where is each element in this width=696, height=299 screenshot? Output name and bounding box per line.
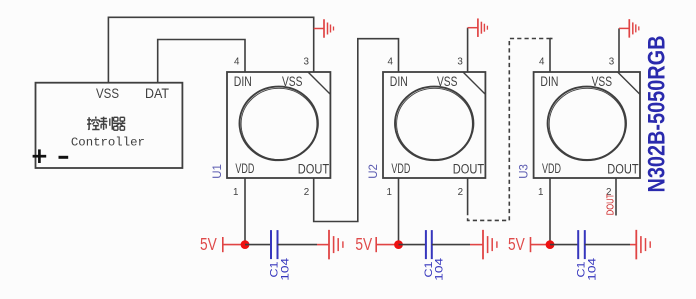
svg-text:2: 2 — [458, 187, 463, 198]
svg-text:5V: 5V — [200, 234, 217, 254]
svg-text:3: 3 — [303, 57, 309, 68]
svg-text:U3: U3 — [518, 164, 530, 179]
svg-text:VSS: VSS — [282, 74, 302, 89]
svg-text:2: 2 — [304, 187, 309, 198]
svg-text:Controller: Controller — [71, 135, 145, 149]
svg-text:4: 4 — [539, 57, 545, 68]
svg-text:4: 4 — [234, 57, 240, 68]
svg-text:DOUT: DOUT — [453, 161, 484, 176]
svg-text:5V: 5V — [508, 234, 525, 254]
svg-text:104: 104 — [587, 258, 599, 281]
svg-text:5V: 5V — [355, 234, 372, 254]
svg-text:DOUT: DOUT — [605, 193, 616, 215]
svg-text:1: 1 — [233, 187, 238, 198]
svg-text:VDD: VDD — [391, 161, 410, 176]
svg-text:DIN: DIN — [390, 74, 408, 89]
svg-text:VSS: VSS — [437, 74, 457, 89]
svg-text:DIN: DIN — [540, 74, 558, 89]
svg-text:4: 4 — [388, 57, 394, 68]
svg-text:DOUT: DOUT — [607, 161, 638, 176]
svg-text:VSS: VSS — [592, 74, 612, 89]
svg-text:3: 3 — [609, 57, 615, 68]
svg-text:C1: C1 — [576, 262, 588, 278]
svg-text:U2: U2 — [368, 164, 380, 179]
svg-text:104: 104 — [434, 258, 446, 281]
svg-text:DAT: DAT — [145, 86, 169, 102]
svg-text:104: 104 — [279, 258, 291, 281]
svg-text:VSS: VSS — [96, 86, 119, 102]
svg-text:U1: U1 — [212, 164, 224, 179]
svg-text:VDD: VDD — [235, 161, 254, 176]
svg-text:1: 1 — [538, 187, 543, 198]
svg-text:VDD: VDD — [542, 161, 561, 176]
svg-text:DOUT: DOUT — [298, 161, 329, 176]
svg-text:N302B-5050RGB: N302B-5050RGB — [644, 36, 671, 193]
svg-text:3: 3 — [457, 57, 463, 68]
svg-text:1: 1 — [387, 187, 392, 198]
svg-text:DIN: DIN — [234, 74, 252, 89]
